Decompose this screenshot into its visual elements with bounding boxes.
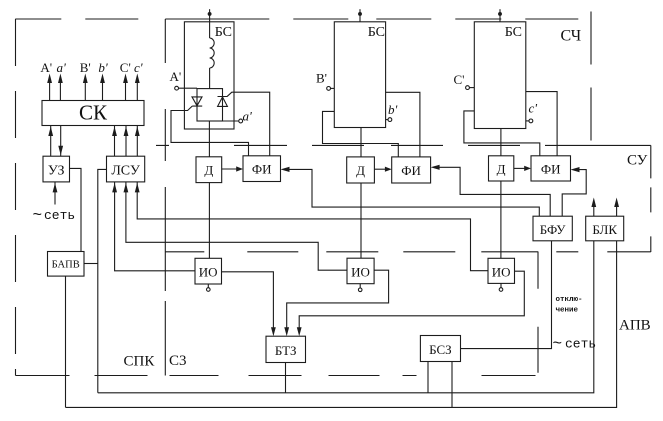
node IO2 output terminal (358, 288, 362, 292)
wire SK output 4 (phase b') (102, 78, 104, 101)
arrowhead BFU chain into FI1 (281, 167, 290, 172)
block BAPV (48, 252, 85, 277)
inductor L1 lead out (209, 68, 211, 89)
block BS1 (184, 22, 234, 129)
wire bus 1 (BLK left pin long bus) (98, 241, 594, 393)
wire IO3 right to BTZ arrow 3 (299, 271, 524, 329)
arrowhead into LSU bottom 1 (112, 183, 117, 193)
svg-text:УЗ: УЗ (48, 164, 65, 179)
arrowhead SK output 1 (47, 74, 52, 84)
node IO3 output terminal (499, 288, 503, 292)
svg-text:СУ: СУ (627, 153, 648, 169)
block FI3 (531, 156, 571, 181)
thyristor VS1a body (left, cathode down) (192, 97, 202, 106)
wire D1 to IO1 (208, 183, 210, 259)
wire BS3 right to c' terminal (526, 120, 529, 122)
inductor L1 lead in BS1 (209, 22, 211, 38)
wire A' to thyristor module (179, 87, 198, 89)
wire SK output 2 (phase a') (59, 78, 61, 101)
svg-text:~: ~ (33, 207, 43, 225)
wire bus 2 (BLK right pin long bus) (66, 241, 617, 408)
wire IO2 bottom stub (359, 284, 361, 288)
wire FI2 right input chain from BFU (437, 167, 550, 216)
arrowhead BLK output up 1 (591, 198, 596, 208)
arrowhead SK output 6 (135, 74, 140, 84)
wire LSU bottom line 3 to IO3 left (137, 182, 488, 271)
block IO1 (195, 258, 222, 284)
svg-text:B': B' (316, 71, 327, 86)
svg-text:Д: Д (204, 163, 213, 178)
wire LSU to SK line 2 (125, 126, 127, 157)
arrowhead SK output 5 (123, 74, 128, 84)
wire BTZ bottom to bus 1 (285, 363, 287, 393)
block LSU (107, 156, 145, 182)
wire C' to BS3 (469, 87, 474, 89)
arrowhead D2 to FI2 (385, 167, 392, 172)
svg-text:ФИ: ФИ (252, 162, 272, 177)
wire module center to D1 (208, 121, 210, 157)
arrow D3 to FI3 (514, 167, 526, 169)
svg-text:b': b' (98, 60, 108, 75)
svg-text:ФИ: ФИ (541, 162, 561, 177)
frame SZ/APV divider (dashed vertical) (537, 252, 539, 376)
wire BLK up arrow 2 (616, 204, 618, 216)
wire LSU to SK line 1 (114, 126, 116, 157)
thyristor module box VS1 (197, 89, 223, 121)
arrowhead D1 to FI1 (236, 166, 243, 171)
terminal BS1 top circle (208, 13, 211, 16)
frame SCh right border (dashed vertical) (590, 12, 592, 146)
svg-text:b': b' (388, 102, 398, 117)
frame SU bottom / SZ top border (dashed) (165, 251, 651, 253)
svg-text:C': C' (120, 60, 131, 75)
arrowhead SK to UZ (58, 146, 63, 156)
block IO2 (347, 258, 374, 284)
wire D2 to IO2 (360, 183, 362, 258)
wire IO2 right to BTZ arrow 2 (287, 270, 389, 329)
wire BS3 bottom to D3 (500, 129, 502, 156)
wire IO3 bottom stub (500, 283, 502, 287)
svg-text:отклю-: отклю- (556, 296, 583, 304)
svg-text:сеть: сеть (565, 337, 596, 352)
arrowhead into LSU bottom 3 (135, 183, 140, 193)
svg-text:СЧ: СЧ (561, 28, 582, 45)
svg-text:a': a' (243, 109, 253, 124)
arrowhead mains to UZ (53, 183, 58, 193)
svg-text:СК: СК (79, 101, 108, 125)
svg-text:СПК: СПК (124, 354, 156, 370)
wire UZ right to BAPV top (70, 168, 82, 251)
frame SU top edge (591, 144, 651, 146)
svg-text:БС: БС (215, 25, 232, 40)
wire BS2 bottom to D2 (360, 128, 362, 157)
terminal BS3 top tick (499, 9, 501, 12)
wire BLK up arrow 1 (593, 204, 595, 216)
svg-text:С3: С3 (169, 353, 187, 369)
wire FI1 right input chain from BFU (287, 169, 539, 216)
frame bottom border (dashed) (16, 375, 539, 377)
block D1 (196, 157, 222, 183)
frame SPK left border (dashed) (15, 19, 17, 376)
wire BS2 terminal to box (359, 15, 361, 22)
svg-text:БФУ: БФУ (540, 222, 567, 237)
block D2 (347, 157, 375, 183)
svg-text:БС: БС (368, 25, 385, 40)
svg-text:БСЗ: БСЗ (429, 342, 452, 357)
wire BS3 terminal to box (499, 15, 501, 22)
thyristor VS1a gate lead (171, 106, 249, 156)
block BFU (533, 216, 572, 241)
wire BAPV right to LSU-left net (84, 263, 98, 265)
terminal BS2 top tick (359, 9, 361, 12)
terminal BS1 top tick (209, 9, 211, 12)
arrowhead SK output 2 (58, 74, 63, 84)
node B' terminal circle (327, 87, 331, 91)
wire BS3 left gate loop to FI3 top (464, 111, 540, 156)
thyristor VS1b gate lead to FI1 (227, 92, 269, 156)
wire SK output 6 (phase c') (136, 78, 138, 101)
arrowhead UZ to SK (48, 127, 53, 137)
svg-text:ИО: ИО (199, 265, 218, 280)
arrowhead D3 to FI3 (524, 166, 531, 171)
wire BS2 right to b' terminal (386, 119, 388, 121)
wire BS2 left gate loop to FI2 top (323, 111, 399, 156)
node A' terminal circle (175, 86, 179, 90)
thyristor VS1b body (right, anode up) (218, 97, 228, 107)
svg-text:a': a' (57, 60, 67, 75)
svg-text:чение: чение (556, 307, 579, 315)
wire BSZ right pin to bus 2 (451, 362, 453, 408)
wire BS3 right to FI3 top (526, 92, 557, 156)
wire D3 to IO3 (500, 181, 502, 258)
wire BSZ right to BFU bottom (mains) (461, 241, 552, 349)
wire BS2 right to FI2 top (386, 92, 420, 157)
wire IO1 right to BTZ arrow 1 (222, 272, 274, 329)
wire BS1 terminal to box (209, 15, 211, 22)
wire LSU bottom line 2 to IO2 left (126, 182, 347, 270)
frame SPK/SZ divider (dashed vertical) (164, 19, 166, 376)
arrowhead BLK output up 2 (614, 198, 619, 208)
wire IO1 bottom stub (207, 284, 209, 288)
svg-text:БС: БС (505, 25, 522, 40)
arrowhead IO2 into BTZ (284, 327, 289, 336)
svg-text:c': c' (529, 101, 538, 116)
arrowhead IO1 into BTZ (271, 327, 276, 336)
arrowhead LSU to SK 2 (124, 127, 129, 137)
inductor L1 (coil) (210, 38, 215, 68)
svg-text:Д: Д (356, 163, 365, 178)
arrow D2 to FI2 (374, 168, 386, 170)
svg-text:A': A' (170, 69, 182, 84)
node C' terminal circle (466, 86, 470, 90)
svg-text:~: ~ (553, 335, 563, 353)
wire SK output 1 (phase A') (49, 78, 51, 101)
block BS3 (474, 22, 526, 129)
frame SCh bottom border (dashed) (156, 144, 591, 146)
block BTZ (266, 336, 306, 362)
arrowhead LSU to SK 1 (112, 127, 117, 137)
frame SU right border (dashed vertical) (650, 145, 652, 252)
svg-text:ФИ: ФИ (401, 163, 421, 178)
svg-text:БЛК: БЛК (592, 222, 617, 237)
block BSZ (420, 336, 460, 362)
svg-text:Д: Д (497, 162, 506, 177)
arrowhead SK output 4 (100, 74, 105, 84)
block IO3 (488, 258, 515, 283)
wire SK output 3 (phase B') (84, 78, 86, 101)
block UZ (43, 156, 70, 182)
wire UZ to SK (up arrow line) (50, 126, 52, 157)
arrowhead LSU to SK 3 (135, 127, 140, 137)
node a' terminal circle (239, 119, 243, 123)
wire SK to UZ (down arrow line) (60, 126, 62, 157)
wire SK output 5 (phase C') (125, 78, 127, 101)
svg-text:ЛСУ: ЛСУ (111, 164, 140, 179)
block D3 (489, 156, 514, 181)
arrow D1 to FI1 (222, 168, 238, 170)
svg-text:C': C' (454, 72, 465, 87)
node IO1 output terminal (207, 288, 211, 292)
svg-text:B': B' (80, 60, 91, 75)
node b' terminal circle (388, 118, 392, 122)
wire BAPV bottom to bottom bus 2 (65, 276, 67, 407)
wire mains to UZ (54, 182, 56, 205)
svg-text:сеть: сеть (44, 208, 75, 223)
svg-text:БАПВ: БАПВ (52, 260, 80, 271)
wire LSU left pin down to bottom bus 1 (98, 169, 107, 392)
wire LSU bottom line 1 to IO1 left (115, 182, 195, 271)
svg-text:ИО: ИО (351, 265, 370, 280)
frame SPK top border (dashed) (15, 18, 591, 20)
wire BSZ left pin to bus 1 (427, 362, 429, 393)
arrowhead SK output 3 (83, 74, 88, 84)
svg-text:АПВ: АПВ (619, 318, 651, 334)
wire module bottom to a' (223, 120, 239, 122)
block SK (42, 101, 144, 126)
block BLK (586, 216, 624, 241)
terminal BS3 top circle (499, 13, 502, 16)
arrowhead BFU chain into FI2 (431, 165, 440, 170)
arrowhead IO3 into BTZ (297, 327, 302, 336)
wire LSU to SK line 3 (136, 126, 138, 157)
block BS2 (334, 22, 385, 128)
svg-text:c': c' (134, 60, 143, 75)
svg-text:ИО: ИО (492, 265, 511, 280)
terminal BS2 top circle (359, 13, 362, 16)
svg-text:БТЗ: БТЗ (275, 343, 297, 358)
block FI2 (392, 157, 431, 183)
wire FI3 right input chain from BFU (562, 170, 586, 217)
node c' terminal circle (529, 119, 533, 123)
block FI1 (243, 156, 281, 182)
arrowhead into LSU bottom 2 (124, 183, 129, 193)
arrowhead BFU chain into FI3 (571, 167, 580, 172)
svg-text:A': A' (40, 60, 52, 75)
wire B' to BS2 (331, 87, 335, 89)
